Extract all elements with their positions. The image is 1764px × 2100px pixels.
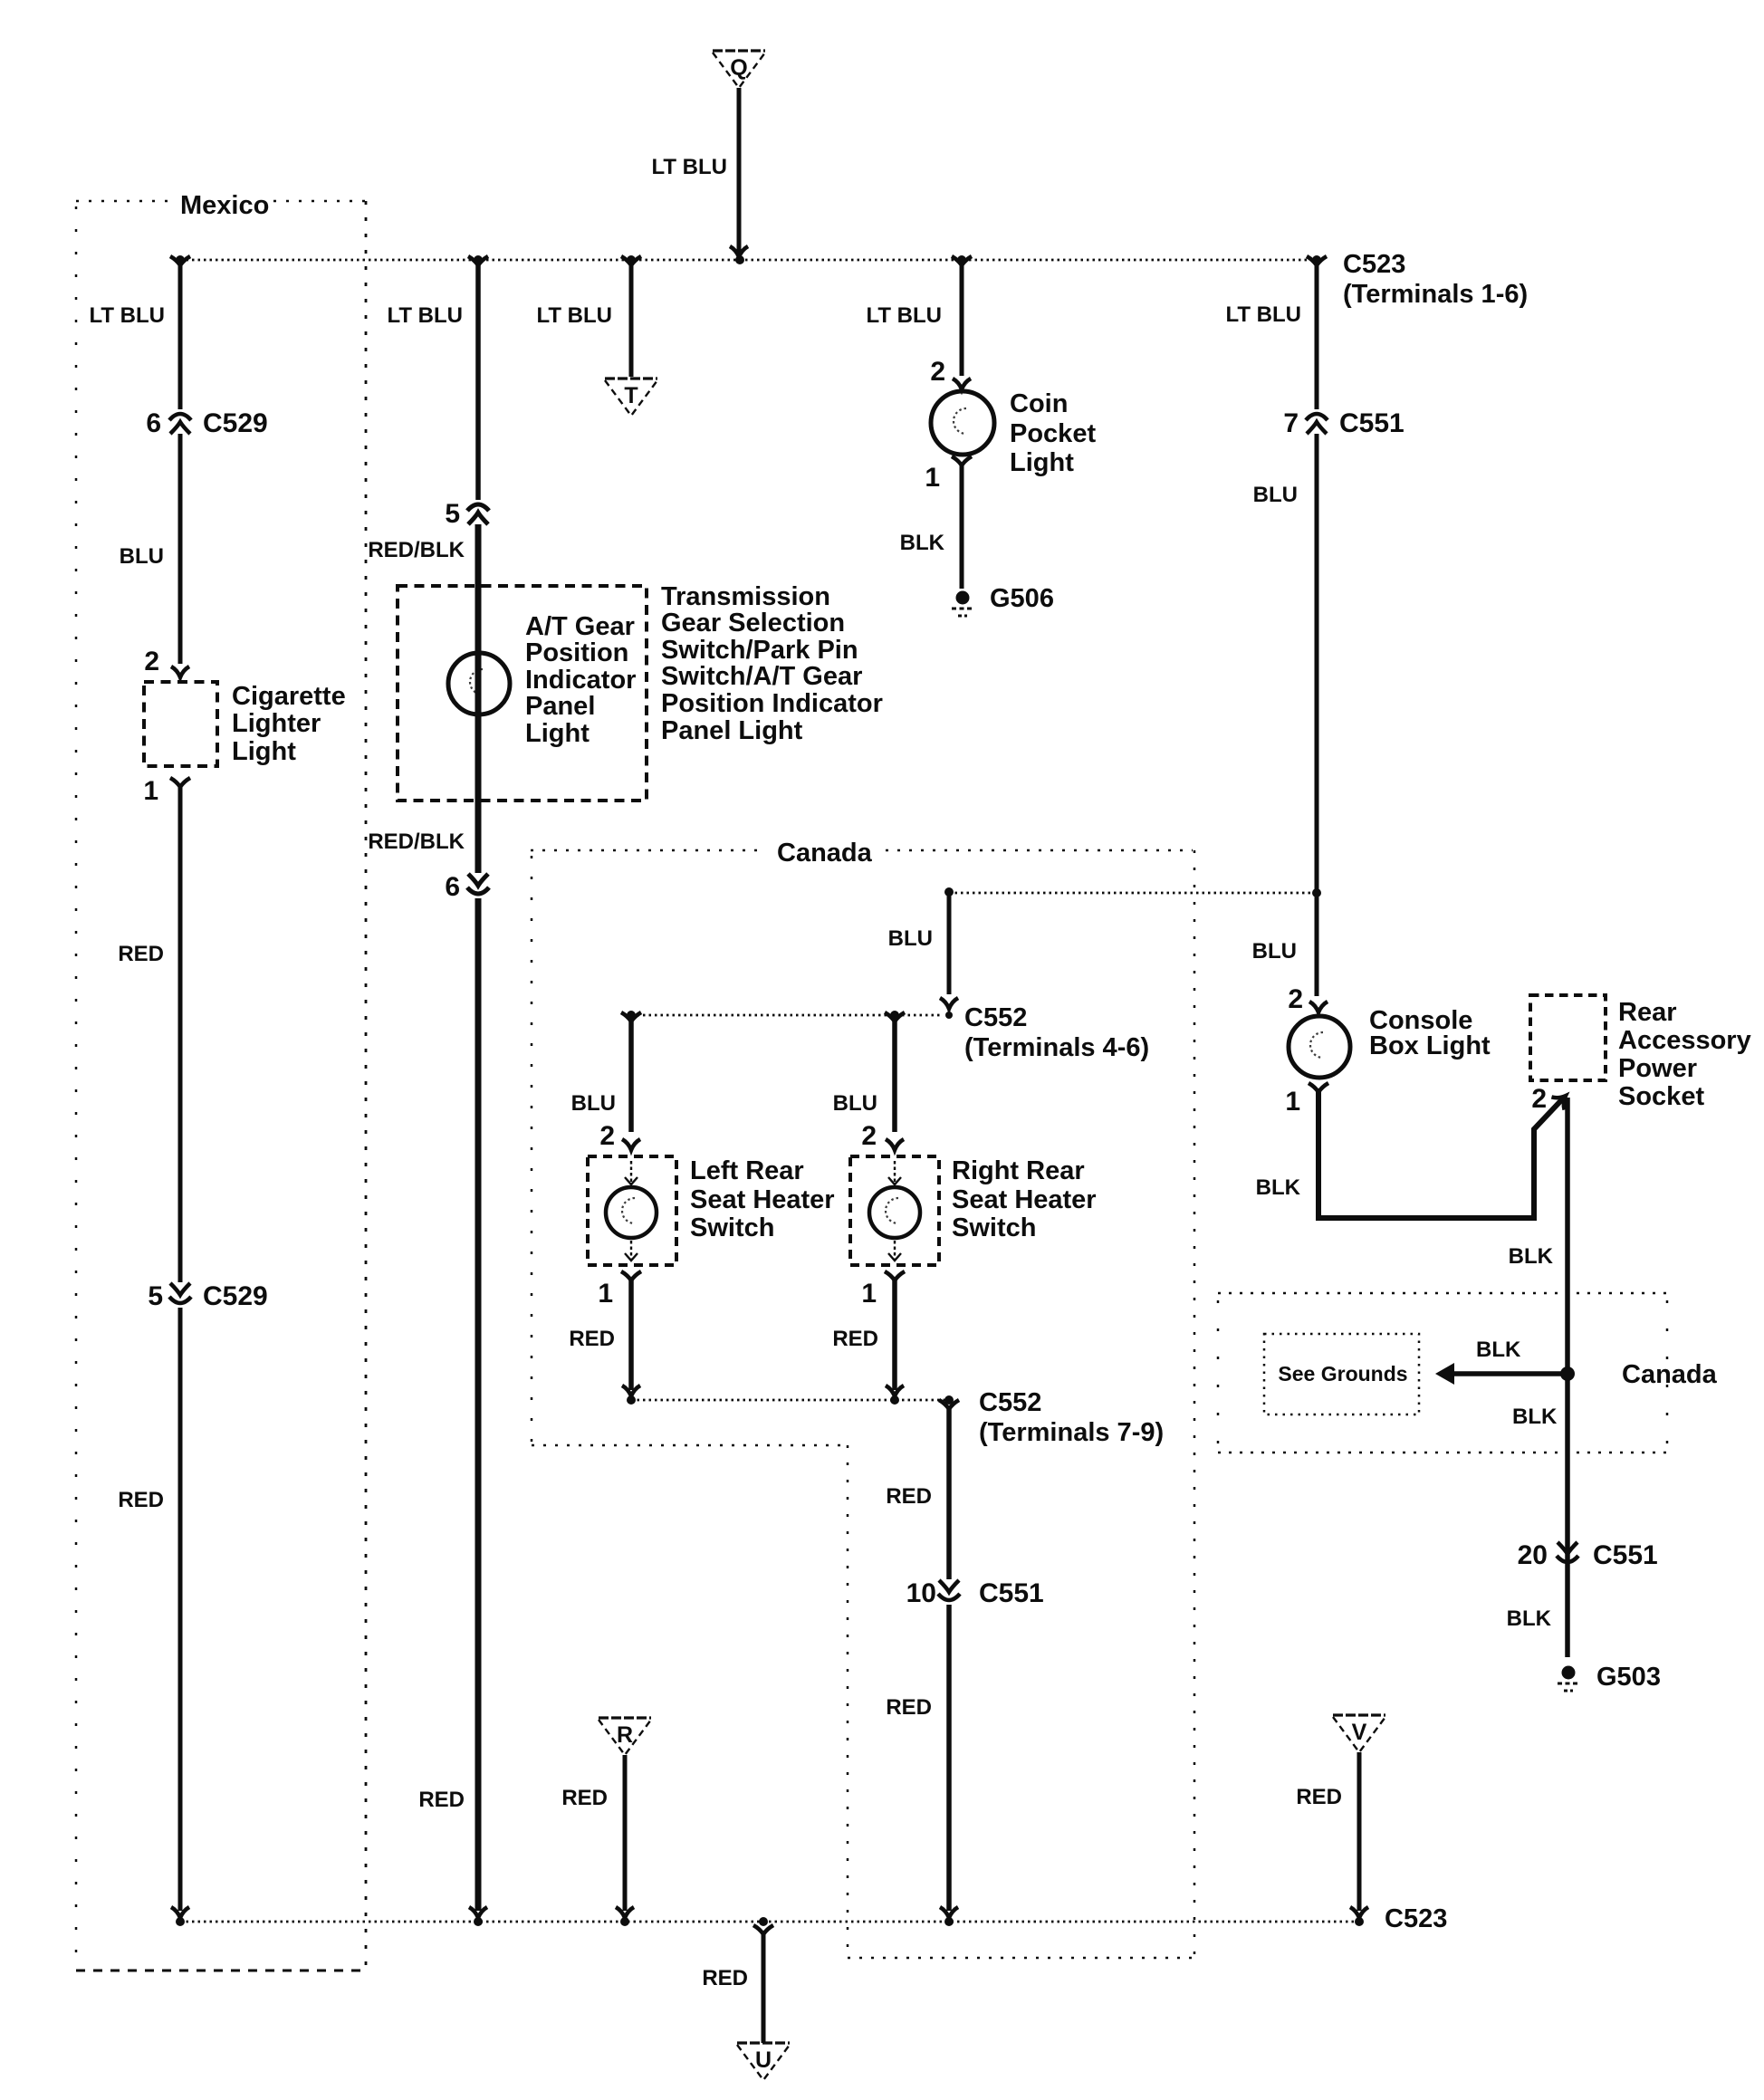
svg-text:A/T Gear: A/T Gear bbox=[525, 612, 635, 641]
svg-text:BLU: BLU bbox=[833, 1091, 877, 1116]
svg-text:Transmission: Transmission bbox=[661, 582, 830, 611]
svg-text:Left Rear: Left Rear bbox=[690, 1156, 804, 1185]
wire: dotted link heater bottoms (terminals 7-9) bbox=[631, 1399, 949, 1402]
node: junction with C552 dotted link bbox=[1312, 888, 1321, 897]
svg-text:RED: RED bbox=[702, 1966, 748, 1990]
svg-text:BLU: BLU bbox=[571, 1091, 616, 1116]
svg-text:G503: G503 bbox=[1596, 1663, 1661, 1692]
svg-text:(Terminals 1-6): (Terminals 1-6) bbox=[1343, 280, 1528, 309]
svg-text:Position Indicator: Position Indicator bbox=[661, 689, 883, 718]
svg-text:20: 20 bbox=[1518, 1540, 1548, 1570]
svg-text:G506: G506 bbox=[990, 584, 1054, 613]
connector C552 (Terminals 4-6) bbox=[940, 998, 958, 1009]
svg-text:Panel: Panel bbox=[525, 692, 595, 721]
svg-text:Accessory: Accessory bbox=[1618, 1026, 1751, 1055]
svg-text:See Grounds: See Grounds bbox=[1278, 1362, 1407, 1386]
pin 1 of cigarette lighter light bbox=[170, 778, 190, 790]
svg-text:C529: C529 bbox=[203, 408, 268, 438]
svg-text:R: R bbox=[617, 1722, 633, 1748]
wire W2 segment to bottom bus (RED) bbox=[475, 898, 482, 1911]
svg-text:C551: C551 bbox=[1339, 408, 1404, 438]
svg-text:(Terminals 4-6): (Terminals 4-6) bbox=[964, 1033, 1149, 1062]
svg-text:1: 1 bbox=[143, 776, 158, 806]
svg-text:RED/BLK: RED/BLK bbox=[368, 829, 465, 854]
wire C551-10 to bottom bus (RED) bbox=[946, 1605, 952, 1911]
svg-text:BLK: BLK bbox=[1512, 1405, 1558, 1429]
connector C551 pin 7 bbox=[1306, 414, 1328, 420]
wire C552 upper (BLU) bbox=[947, 892, 952, 994]
wire U branch below bus (RED) bbox=[753, 1925, 773, 1937]
wire W1 segment C529 to lighter (BLU) bbox=[178, 434, 183, 664]
svg-text:2: 2 bbox=[861, 1121, 877, 1151]
pin 1 of console box light bbox=[1309, 1083, 1328, 1095]
Canada variant L-shaped box (dotted border) bbox=[531, 850, 1194, 1958]
svg-text:RED: RED bbox=[1296, 1785, 1342, 1809]
svg-text:RED: RED bbox=[118, 1488, 164, 1512]
cigarette lighter light (dashed box) bbox=[144, 682, 217, 766]
pin 2 of coin pocket light bbox=[953, 379, 971, 389]
off-page connector U bbox=[737, 2041, 790, 2044]
svg-text:Switch/Park Pin: Switch/Park Pin bbox=[661, 636, 858, 665]
svg-text:7: 7 bbox=[1283, 408, 1299, 438]
off-page connector R bbox=[599, 1716, 651, 1719]
svg-text:1: 1 bbox=[1285, 1087, 1300, 1117]
svg-text:2: 2 bbox=[1288, 984, 1303, 1014]
svg-text:RED/BLK: RED/BLK bbox=[368, 538, 465, 562]
wire right main C551 to junction (BLU) bbox=[1315, 434, 1319, 893]
right rear seat heater switch (dashed box) bbox=[850, 1156, 939, 1265]
Mexico variant box (dotted border) bbox=[76, 201, 366, 1971]
svg-text:T: T bbox=[624, 383, 638, 408]
svg-text:Seat Heater: Seat Heater bbox=[690, 1185, 835, 1214]
node: left heater bottom bbox=[627, 1395, 636, 1405]
svg-text:BLK: BLK bbox=[900, 531, 945, 555]
rear accessory power socket (dashed box) bbox=[1530, 995, 1606, 1080]
svg-text:LT BLU: LT BLU bbox=[651, 155, 727, 179]
wire V to bottom bus (RED) bbox=[1357, 1752, 1362, 1911]
wire R to bottom bus (RED) bbox=[623, 1755, 628, 1911]
svg-text:C523: C523 bbox=[1385, 1904, 1447, 1933]
node: left heater top bbox=[627, 1011, 636, 1020]
svg-text:Pocket: Pocket bbox=[1010, 419, 1096, 448]
svg-text:Coin: Coin bbox=[1010, 389, 1068, 418]
node: bottom bus junctions bbox=[176, 1917, 1364, 1926]
svg-text:Rear: Rear bbox=[1618, 998, 1677, 1027]
svg-text:U: U bbox=[755, 2047, 772, 2073]
lamp: console box light bbox=[1289, 1016, 1350, 1078]
svg-text:C551: C551 bbox=[979, 1578, 1044, 1608]
pin 2 of cigarette lighter light bbox=[171, 666, 189, 677]
svg-text:2: 2 bbox=[1531, 1084, 1547, 1114]
node: right heater bottom bbox=[890, 1395, 899, 1405]
connector C529 pin 6 bbox=[169, 414, 191, 420]
off-page connector Q bbox=[713, 49, 765, 52]
connector C529 pin 5 bbox=[170, 1283, 190, 1295]
wire: bottom RED bus (dotted) bbox=[180, 1921, 1359, 1923]
wire: dotted link heater switches (terminals 4-6) bbox=[631, 1014, 942, 1017]
svg-text:RED: RED bbox=[886, 1695, 932, 1720]
wire right main bus down (LT BLU) bbox=[1307, 256, 1327, 268]
svg-text:RED: RED bbox=[418, 1788, 465, 1812]
svg-text:(Terminals 7-9): (Terminals 7-9) bbox=[979, 1418, 1164, 1447]
node: C552 upper junction bbox=[944, 887, 954, 897]
wire W2 segment to A/T box (RED/BLK) bbox=[475, 524, 482, 873]
lamp: coin pocket light bbox=[931, 391, 994, 455]
node: ground junction (Canada) bbox=[1560, 1366, 1575, 1381]
left rear seat heater switch (dashed box) bbox=[588, 1156, 676, 1265]
svg-text:BLU: BLU bbox=[1252, 939, 1297, 964]
wire socket to G503 (BLK) bbox=[1565, 1098, 1570, 1657]
connector pin 5 (W2) bbox=[467, 504, 489, 511]
svg-text:C552: C552 bbox=[979, 1388, 1041, 1417]
pin 2 of left heater switch bbox=[622, 1139, 640, 1150]
svg-text:Power: Power bbox=[1618, 1054, 1697, 1083]
A/T gear position indicator panel light (dashed box) bbox=[398, 586, 647, 801]
svg-text:BLK: BLK bbox=[1507, 1606, 1552, 1631]
svg-text:BLK: BLK bbox=[1509, 1244, 1554, 1269]
svg-text:Mexico: Mexico bbox=[180, 191, 269, 220]
svg-text:Switch: Switch bbox=[690, 1213, 774, 1242]
svg-text:6: 6 bbox=[445, 872, 460, 902]
lamp: left heater switch indicator bbox=[606, 1187, 657, 1238]
svg-text:Light: Light bbox=[1010, 448, 1074, 477]
lamp: A/T gear position indicator panel light bbox=[448, 653, 510, 714]
svg-text:BLU: BLU bbox=[120, 544, 164, 569]
wire console light ground path (BLK) elbow bbox=[1318, 1088, 1564, 1218]
svg-text:Switch/A/T Gear: Switch/A/T Gear bbox=[661, 662, 862, 691]
svg-text:LT BLU: LT BLU bbox=[1225, 302, 1301, 327]
wire right heater top (BLU) bbox=[885, 1012, 905, 1024]
svg-text:2: 2 bbox=[144, 647, 159, 676]
node: top bus junctions bbox=[176, 255, 1321, 264]
svg-text:C529: C529 bbox=[203, 1281, 268, 1311]
connector C551 pin 20 bbox=[1558, 1542, 1577, 1554]
svg-text:Light: Light bbox=[525, 719, 590, 748]
svg-text:RED: RED bbox=[569, 1327, 615, 1351]
off-page connector V bbox=[1333, 1713, 1385, 1716]
svg-text:LT BLU: LT BLU bbox=[89, 303, 165, 328]
svg-text:Switch: Switch bbox=[952, 1213, 1036, 1242]
svg-text:BLU: BLU bbox=[888, 926, 933, 951]
svg-text:Lighter: Lighter bbox=[232, 709, 321, 738]
pin 1 of coin pocket light bbox=[952, 456, 972, 468]
svg-text:Light: Light bbox=[232, 737, 296, 766]
svg-text:Box Light: Box Light bbox=[1369, 1031, 1491, 1060]
svg-text:Q: Q bbox=[730, 55, 747, 81]
svg-text:Socket: Socket bbox=[1618, 1082, 1704, 1111]
pin 2 of console box light bbox=[1309, 1002, 1328, 1012]
svg-text:LT BLU: LT BLU bbox=[536, 303, 612, 328]
svg-text:RED: RED bbox=[832, 1327, 878, 1351]
wire coin light to ground (BLK) bbox=[960, 465, 964, 589]
ground G506 bbox=[956, 591, 970, 605]
svg-text:Panel Light: Panel Light bbox=[661, 716, 803, 745]
wire left heater top (BLU) bbox=[621, 1012, 641, 1024]
svg-text:BLK: BLK bbox=[1476, 1338, 1521, 1362]
node: C552 lower junction bbox=[944, 1395, 954, 1405]
wire: top LT BLU bus (dotted) bbox=[180, 259, 1317, 262]
svg-text:BLK: BLK bbox=[1256, 1175, 1301, 1200]
node: right heater top bbox=[890, 1011, 899, 1020]
see grounds arrow bbox=[1435, 1363, 1454, 1385]
svg-text:RED: RED bbox=[118, 942, 164, 966]
wire Q to bus (LT BLU) bbox=[737, 88, 742, 254]
svg-text:BLU: BLU bbox=[1253, 483, 1298, 507]
pin 2 of rear accessory power socket bbox=[1551, 1089, 1572, 1110]
wire W2 segment bus down (LT BLU) bbox=[468, 256, 488, 268]
svg-text:LT BLU: LT BLU bbox=[866, 303, 942, 328]
svg-text:V: V bbox=[1352, 1720, 1367, 1745]
off-page connector T bbox=[605, 377, 657, 379]
wire: dotted link C552 to right main bbox=[949, 892, 1317, 895]
wire W1 segment bus to C529 (LT BLU) bbox=[170, 256, 190, 268]
connector C551 pin 10 bbox=[939, 1580, 959, 1592]
Canada band (right, dotted) bbox=[1218, 1293, 1667, 1453]
svg-text:10: 10 bbox=[906, 1578, 936, 1608]
lamp: right heater switch indicator bbox=[869, 1187, 920, 1238]
svg-text:Cigarette: Cigarette bbox=[232, 682, 346, 711]
wire coin branch bus down (LT BLU) bbox=[952, 256, 972, 268]
wire right heater bottom (RED) bbox=[892, 1280, 897, 1390]
svg-text:5: 5 bbox=[148, 1281, 163, 1311]
see grounds box (dotted) bbox=[1264, 1334, 1419, 1414]
wire left heater bottom (RED) bbox=[628, 1280, 634, 1390]
ground G503 bbox=[1562, 1666, 1576, 1680]
svg-text:2: 2 bbox=[930, 357, 945, 387]
svg-text:C551: C551 bbox=[1593, 1540, 1658, 1570]
svg-text:Right Rear: Right Rear bbox=[952, 1156, 1085, 1185]
svg-text:C523: C523 bbox=[1343, 250, 1405, 279]
wire W1 segment C529 to bottom bus (RED) bbox=[178, 1308, 183, 1911]
svg-text:6: 6 bbox=[146, 408, 161, 438]
svg-text:Canada: Canada bbox=[1622, 1360, 1718, 1389]
svg-text:1: 1 bbox=[925, 463, 940, 493]
pin 2 of right heater switch bbox=[886, 1139, 904, 1150]
svg-text:Canada: Canada bbox=[777, 839, 873, 868]
wire W1 segment lighter to C529-5 (RED) bbox=[178, 787, 183, 1282]
svg-text:Position: Position bbox=[525, 638, 628, 667]
svg-text:5: 5 bbox=[445, 499, 460, 529]
svg-text:RED: RED bbox=[561, 1786, 608, 1810]
svg-text:RED: RED bbox=[886, 1484, 932, 1509]
svg-text:1: 1 bbox=[598, 1279, 613, 1309]
svg-text:C552: C552 bbox=[964, 1003, 1027, 1032]
svg-text:2: 2 bbox=[599, 1121, 615, 1151]
wire T branch (LT BLU) bbox=[621, 256, 641, 268]
pin 1 of right heater switch bbox=[885, 1271, 905, 1283]
svg-text:Seat Heater: Seat Heater bbox=[952, 1185, 1097, 1214]
svg-text:1: 1 bbox=[861, 1279, 877, 1309]
svg-text:Indicator: Indicator bbox=[525, 666, 636, 695]
wire C552 lower to C551 (RED) bbox=[939, 1400, 959, 1412]
connector pin 6 (W2) bbox=[468, 874, 488, 886]
svg-text:Gear Selection: Gear Selection bbox=[661, 609, 845, 638]
svg-text:LT BLU: LT BLU bbox=[387, 303, 463, 328]
wire right main junction to console light (BLU) bbox=[1315, 893, 1319, 996]
pin 1 of left heater switch bbox=[621, 1271, 641, 1283]
